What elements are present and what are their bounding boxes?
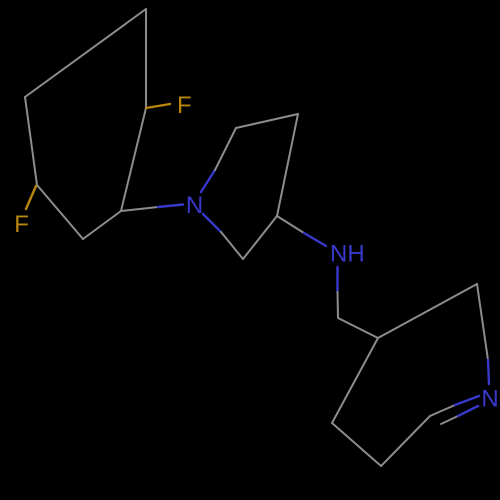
svg-text:N: N xyxy=(186,192,203,219)
bond NH-CH2b gray half xyxy=(337,292,340,318)
wire ring edge B-C1 xyxy=(121,108,146,211)
pyridine ring xyxy=(332,284,488,466)
bond Npy=C1p inner tick blue part xyxy=(458,406,478,416)
pyrrolidine ring xyxy=(201,114,298,259)
bond C6-F2 xyxy=(26,186,36,209)
wire edge C1p-C6p xyxy=(381,416,430,466)
bond C3'-C4' xyxy=(277,114,298,216)
wire ring edge F-A xyxy=(25,9,146,97)
benzene ring (2,6-difluorophenyl) xyxy=(25,9,146,239)
svg-text:NH: NH xyxy=(330,241,365,268)
bond N-C2' gray half xyxy=(221,232,243,259)
bond C1ar-N blue half xyxy=(158,205,183,208)
bond N-C5' gray half xyxy=(215,128,236,170)
wire edge C3p-Npy gray part xyxy=(477,284,488,360)
bond C3'-NH blue half xyxy=(304,233,326,246)
bond N-C2' blue half xyxy=(203,214,221,232)
wire edge C5p-C4p xyxy=(332,338,378,423)
wire ring edge A-B xyxy=(145,9,147,108)
wire edge C4p-C3p xyxy=(378,284,477,338)
bond C2-F1 xyxy=(146,104,170,108)
wire ring edge D-E xyxy=(37,185,83,239)
wire ring edge E-F xyxy=(25,97,37,185)
bond C1ar-N gray half xyxy=(121,207,158,211)
svg-text:F: F xyxy=(14,211,29,238)
bond NH-CH2b blue half xyxy=(336,267,338,292)
bond Npy=C1p main blue part xyxy=(455,396,479,405)
svg-text:N: N xyxy=(481,386,498,413)
bond C2'-C3' xyxy=(243,216,277,259)
bond C4'-C5' xyxy=(236,114,298,128)
bond N-C5' blue half xyxy=(201,170,215,192)
wire edge Npy-C1p gray part xyxy=(430,405,455,416)
svg-text:F: F xyxy=(177,92,192,119)
bond CH2b-C4p xyxy=(338,318,378,338)
bond C3p-Npy blue part xyxy=(488,360,489,384)
wire inner double tick gray part xyxy=(441,416,458,424)
wire ring edge C1-D xyxy=(83,211,121,239)
wire edge C6p-C5p xyxy=(332,423,381,466)
bond C3'-NH gray half xyxy=(277,216,304,233)
